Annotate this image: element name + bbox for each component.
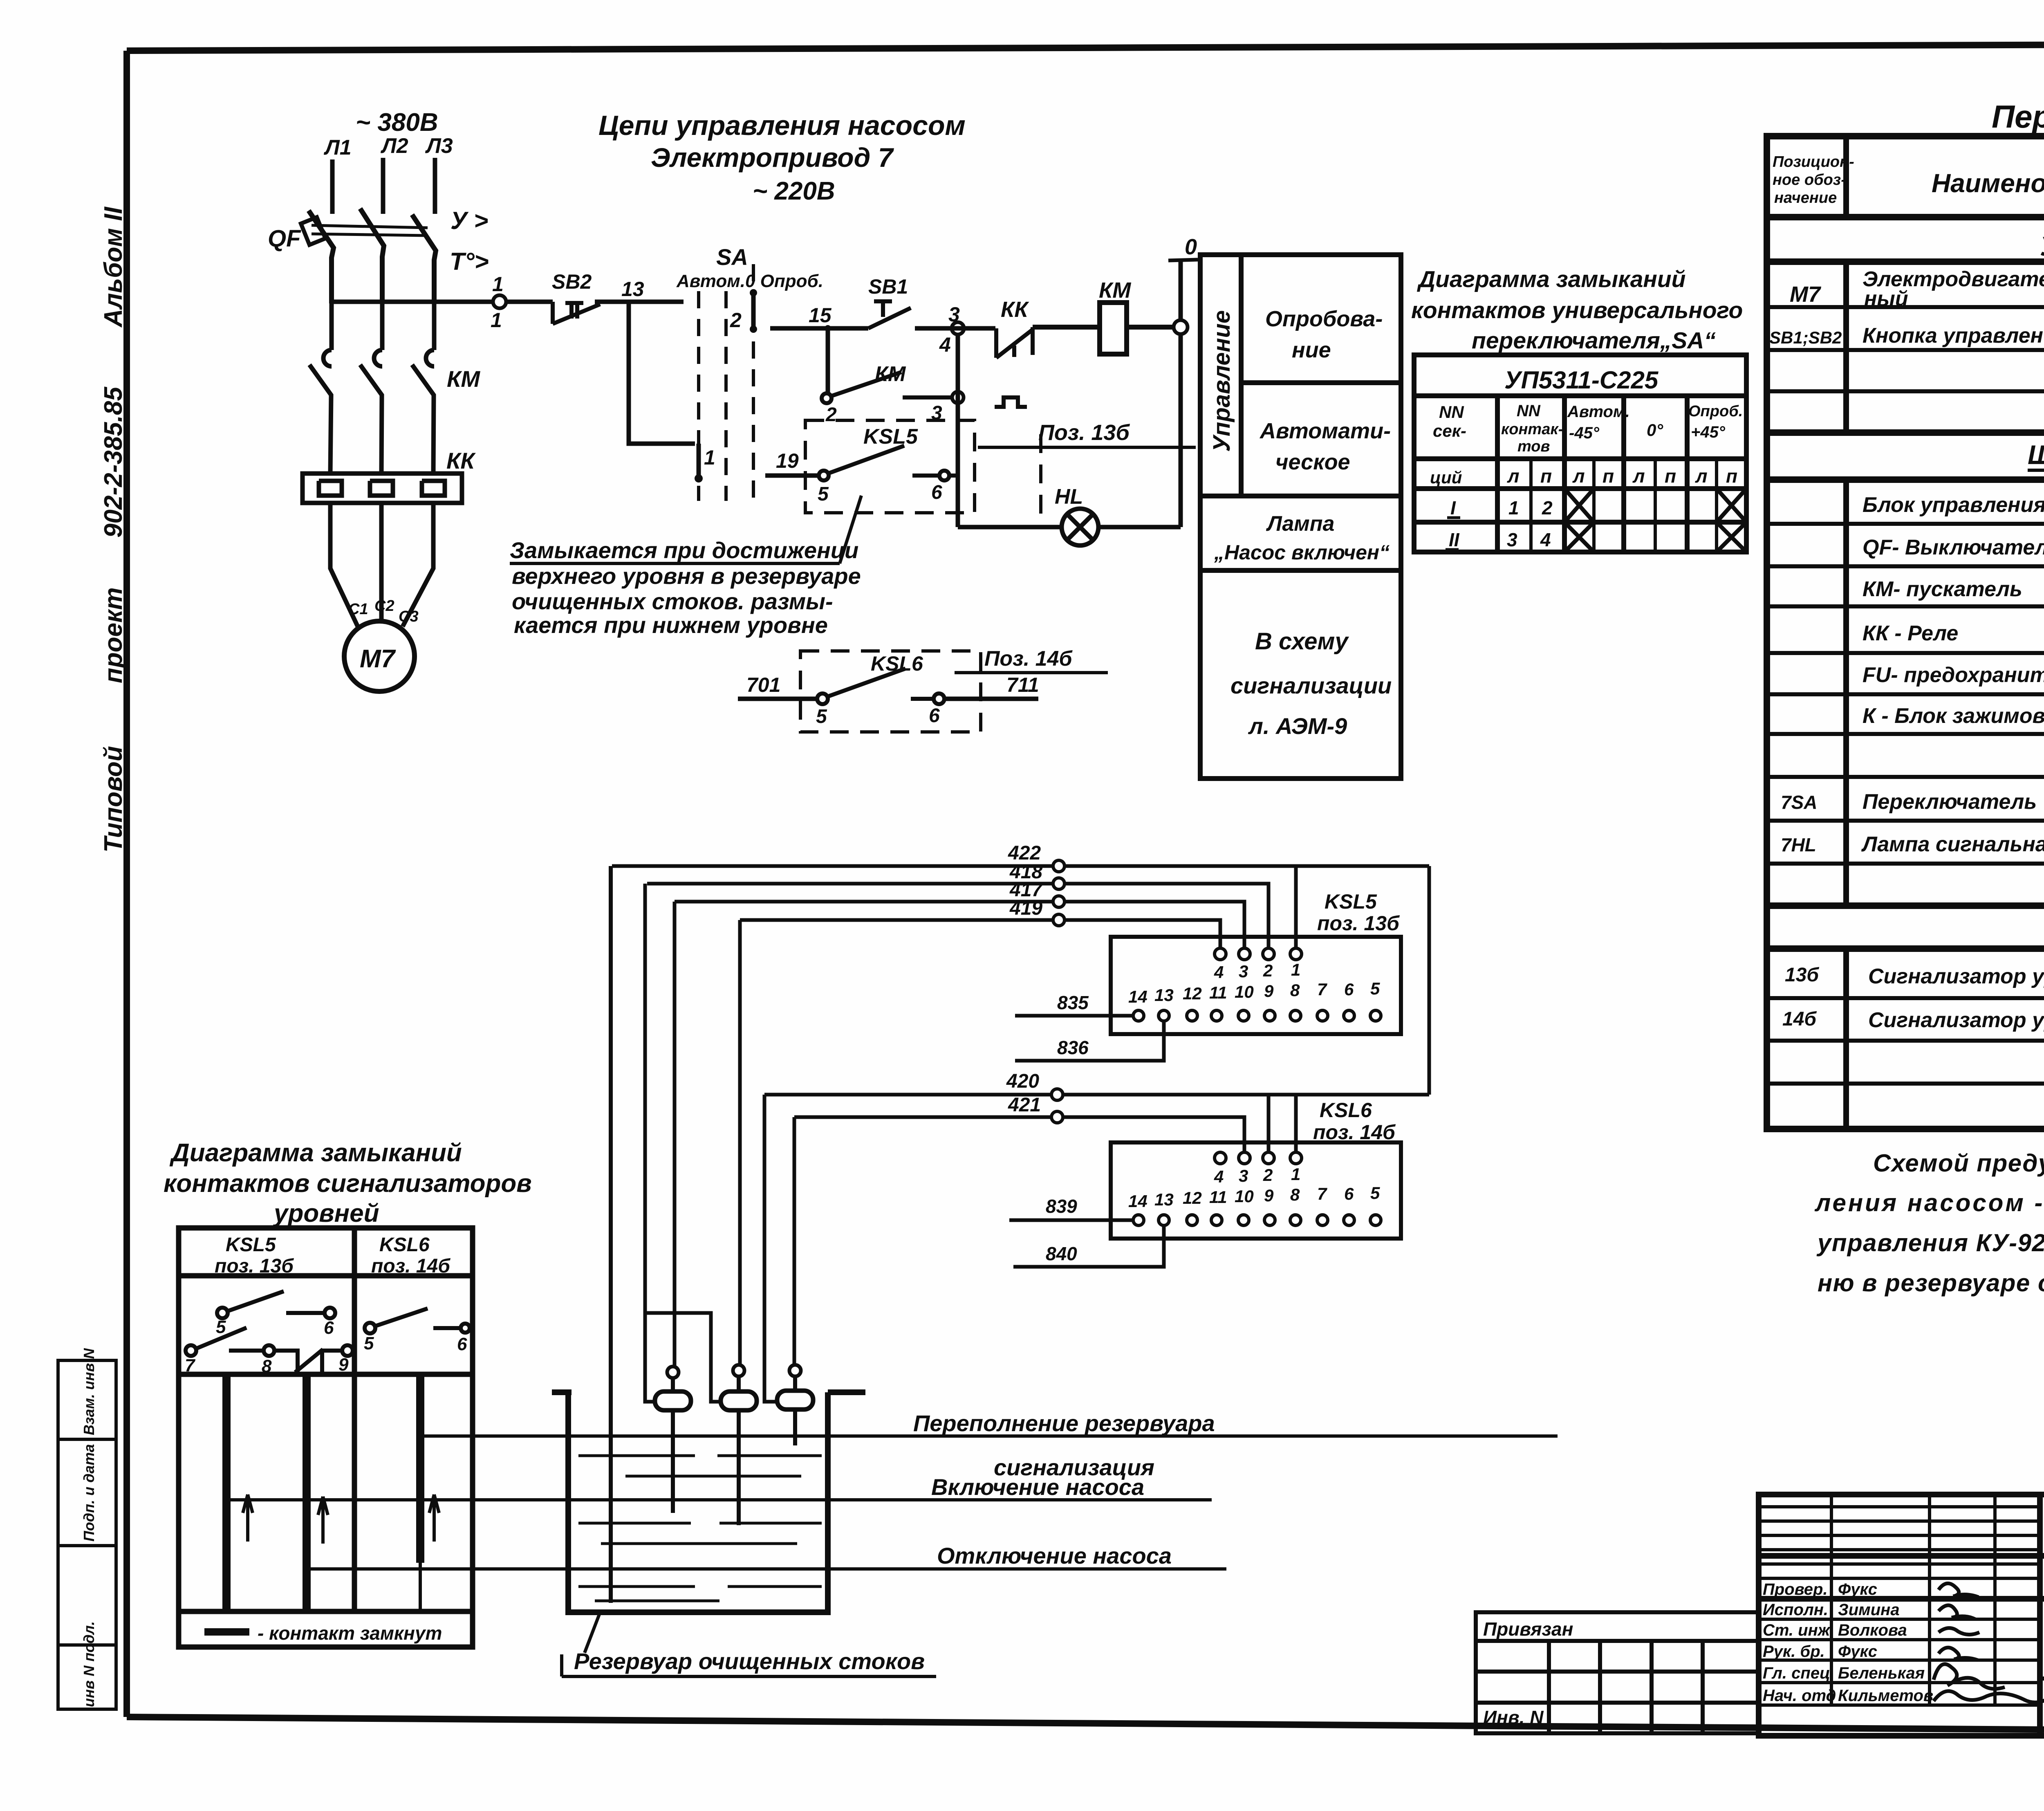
svg-text:Диаграмма замыканий: Диаграмма замыканий <box>169 1139 462 1167</box>
svg-text:11: 11 <box>1209 983 1227 1002</box>
svg-text:5: 5 <box>818 483 829 505</box>
wire KM coil to node 0 line <box>1127 325 1173 330</box>
svg-text:836: 836 <box>1057 1037 1089 1058</box>
breaker QF mechanical link crossbar <box>312 225 428 236</box>
contact KSL5 5-6 <box>217 1291 335 1318</box>
svg-text:ления насосом - опробование: ления насосом - опробование по месту кно… <box>1814 1189 2044 1216</box>
wire 19 stub to KSL5 contact <box>765 474 818 478</box>
svg-text:п: п <box>1665 465 1676 487</box>
dashed panel boundary <box>1039 434 1042 521</box>
svg-text:Альбом II: Альбом II <box>99 206 128 328</box>
strip: closed-state bar 3 <box>416 1374 424 1563</box>
wire 418 <box>647 884 1269 949</box>
svg-text:Л2: Л2 <box>380 134 408 158</box>
svg-text:KSL6: KSL6 <box>1320 1099 1372 1122</box>
svg-text:NN: NN <box>1517 402 1541 420</box>
svg-text:4: 4 <box>1214 963 1224 982</box>
leader Поз.13б <box>978 446 1196 449</box>
contactor KM pole 2 <box>360 350 382 474</box>
svg-text:2: 2 <box>730 309 742 332</box>
svg-text:очищенных стоков. размы-: очищенных стоков. размы- <box>512 588 833 614</box>
KSL5 bottom pins <box>1133 1010 1381 1021</box>
svg-text:Исполн.: Исполн. <box>1763 1601 1828 1619</box>
svg-text:13: 13 <box>1154 985 1174 1005</box>
svg-text:6: 6 <box>929 705 940 727</box>
svg-text:контактов универсального: контактов универсального <box>1411 297 1743 323</box>
svg-text:6: 6 <box>324 1318 334 1338</box>
svg-text:6: 6 <box>457 1334 467 1354</box>
leader to tank <box>585 1612 600 1653</box>
svg-text:Фукс: Фукс <box>1838 1643 1877 1661</box>
control-modes box <box>1200 255 1401 779</box>
svg-text:Отключение насоса: Отключение насоса <box>937 1543 1172 1569</box>
contact KSL6 5-6 <box>365 1308 470 1333</box>
svg-text:711: 711 <box>1006 673 1039 696</box>
node 1 circle <box>493 295 506 308</box>
level line overflow <box>420 1434 1558 1438</box>
relay contact KK (NC) <box>996 327 1033 358</box>
svg-text:SB1;SB2: SB1;SB2 <box>1769 328 1842 347</box>
X mark row I col Опроб-п <box>1717 489 1746 522</box>
svg-text:Кильметов: Кильметов <box>1838 1687 1933 1705</box>
parts table grid <box>1767 136 2044 1129</box>
svg-text:Привязан: Привязан <box>1483 1618 1573 1640</box>
wire 422 left drop into tank <box>609 866 613 1603</box>
svg-text:5: 5 <box>364 1333 374 1353</box>
svg-text:Наименование: Наименование <box>1932 168 2044 198</box>
svg-text:контак-: контак- <box>1501 421 1563 438</box>
breaker QF pole 3 blade <box>412 215 436 303</box>
X mark row I col Автом-л <box>1564 489 1594 522</box>
svg-text:Провер.: Провер. <box>1763 1580 1828 1598</box>
svg-text:Инв. N: Инв. N <box>1483 1707 1544 1728</box>
wire 835 <box>1015 1014 1133 1018</box>
svg-text:л: л <box>1695 465 1708 487</box>
wire 422 drop to KSL5 pin1 <box>1294 866 1298 949</box>
svg-text:9: 9 <box>1264 981 1274 1001</box>
svg-text:Рук. бр.: Рук. бр. <box>1763 1643 1825 1661</box>
svg-text:КК - Реле: КК - Реле <box>1862 622 1958 645</box>
svg-text:Позицион-: Позицион- <box>1773 153 1854 171</box>
svg-text:1: 1 <box>1508 497 1519 518</box>
svg-text:ций: ций <box>1430 468 1462 487</box>
svg-text:8: 8 <box>262 1356 272 1376</box>
SA contact table grid <box>1414 355 1746 552</box>
svg-text:~ 380В: ~ 380В <box>356 108 438 137</box>
svg-text:Схемой предусматривается дв: Схемой предусматривается два вида управ- <box>1873 1149 2044 1177</box>
svg-text:Опроб.: Опроб. <box>1688 403 1743 420</box>
legend: contact closed <box>204 1628 249 1636</box>
water hatching <box>578 1456 822 1601</box>
switch SA dashed column B <box>724 291 728 501</box>
svg-text:Подп. и дата: Подп. и дата <box>81 1444 97 1542</box>
svg-text:19: 19 <box>776 449 799 472</box>
svg-text:3: 3 <box>1239 1166 1248 1185</box>
svg-text:Л3: Л3 <box>425 134 453 158</box>
contact KM auxiliary (NO) <box>822 372 952 403</box>
rise arrow 3 <box>429 1495 439 1542</box>
svg-text:0°: 0° <box>1647 420 1663 440</box>
contactor KM pole 3 <box>412 350 434 474</box>
svg-text:Электропривод 7: Электропривод 7 <box>651 142 894 173</box>
svg-text:п: п <box>1726 465 1737 487</box>
wire 417 <box>675 902 1244 949</box>
svg-text:Беленькая: Беленькая <box>1838 1664 1925 1682</box>
underline of note first line <box>510 562 840 565</box>
svg-text:14: 14 <box>1128 987 1148 1006</box>
svg-text:л. АЭМ-9: л. АЭМ-9 <box>1248 713 1347 739</box>
breaker QF pole 1 blade <box>309 211 334 303</box>
title block outer <box>1759 1495 2044 1736</box>
svg-text:тов: тов <box>1517 438 1550 455</box>
svg-text:С3: С3 <box>399 608 419 625</box>
svg-text:14б: 14б <box>1782 1008 1817 1030</box>
svg-text:ное обоз-: ное обоз- <box>1773 171 1846 189</box>
svg-text:Типовой: Типовой <box>99 746 128 853</box>
wire phase L1 drop <box>330 159 335 214</box>
junction at 15 <box>825 325 831 332</box>
svg-text:Кнопка управления: Кнопка управления <box>1862 324 2044 348</box>
wire KK to motor C1 <box>330 503 358 626</box>
svg-text:КМ: КМ <box>447 366 480 392</box>
KSL5 top pins <box>1215 948 1302 960</box>
svg-text:Лампа сигнальная: Лампа сигнальная <box>1861 833 2044 856</box>
signature squiggles <box>1934 1583 2044 1702</box>
svg-text:Диаграмма замыканий: Диаграмма замыканий <box>1416 266 1685 292</box>
svg-text:2: 2 <box>1263 1165 1273 1185</box>
switch SA contact 1 bar <box>697 444 701 480</box>
svg-text:3: 3 <box>1239 962 1248 981</box>
X mark row II col Автом-л <box>1564 522 1594 552</box>
svg-text:12: 12 <box>1183 1188 1202 1207</box>
svg-text:ние: ние <box>1292 338 1331 362</box>
svg-text:HL: HL <box>1055 485 1083 509</box>
svg-text:QF: QF <box>268 225 301 252</box>
levels diagram title <box>164 1139 532 1228</box>
svg-text:С1: С1 <box>348 601 368 618</box>
X mark row II col Опроб-п <box>1717 522 1746 552</box>
svg-text:Переполнение резервуара: Переполнение резервуара <box>913 1410 1215 1436</box>
wire 422 right loop <box>1428 866 1431 1095</box>
svg-text:SA: SA <box>716 244 748 270</box>
svg-text:0: 0 <box>1185 235 1197 259</box>
svg-text:~ 220В: ~ 220В <box>753 177 835 205</box>
svg-text:Т°>: Т°> <box>450 248 489 275</box>
svg-text:2: 2 <box>1542 497 1553 518</box>
svg-text:управления КУ-92-ВЗГ-У2 и а: управления КУ-92-ВЗГ-У2 и автоматическое… <box>1816 1229 2044 1257</box>
branch 15 down to KM aux <box>826 328 830 393</box>
wire KK to motor C2 <box>379 503 384 621</box>
svg-text:10: 10 <box>1235 1187 1254 1206</box>
leader from note to KSL5 box <box>840 496 861 563</box>
svg-text:сигнализации: сигнализации <box>1230 673 1392 698</box>
svg-text:419: 419 <box>1009 898 1042 919</box>
wire 420 drops <box>1269 1095 1296 1153</box>
svg-text:УП5311-С225: УП5311-С225 <box>1504 366 1659 394</box>
svg-text:12: 12 <box>1183 984 1202 1003</box>
svg-text:Цепи управления насосом: Цепи управления насосом <box>598 110 966 141</box>
float switch 3 <box>789 1365 801 1376</box>
svg-text:6: 6 <box>1344 1184 1354 1203</box>
svg-text:Поз. 13б: Поз. 13б <box>1038 420 1130 445</box>
header texts <box>1773 153 1854 206</box>
svg-text:SB2: SB2 <box>552 270 592 293</box>
svg-text:начение: начение <box>1774 189 1837 206</box>
note paragraph <box>1814 1149 2044 1297</box>
contact KSL6 <box>817 669 944 704</box>
KK thermal element symbol <box>995 397 1027 407</box>
svg-text:поз. 13б: поз. 13б <box>1317 912 1400 935</box>
svg-text:У >: У > <box>450 207 488 234</box>
svg-text:поз. 13б: поз. 13б <box>215 1255 294 1277</box>
svg-text:Блок управления: Блок управления <box>1862 493 2044 517</box>
wire L1 to KM <box>329 303 334 350</box>
svg-text:8: 8 <box>1290 981 1300 1000</box>
svg-text:п: п <box>1540 465 1552 487</box>
svg-text:Взам. инв N: Взам. инв N <box>81 1348 97 1435</box>
svg-text:Лампа: Лампа <box>1266 512 1334 536</box>
svg-text:I: I <box>1450 497 1456 518</box>
svg-text:KSL5: KSL5 <box>226 1234 276 1256</box>
svg-text:13: 13 <box>621 278 644 301</box>
svg-text:Волкова: Волкова <box>1838 1621 1907 1639</box>
svg-text:КМ- пускатель: КМ- пускатель <box>1862 577 2022 601</box>
svg-text:4: 4 <box>1214 1167 1224 1186</box>
svg-text:421: 421 <box>1008 1094 1041 1116</box>
svg-text:Нач. отд: Нач. отд <box>1763 1687 1836 1705</box>
wire 419 left drop to float2 rod <box>738 920 742 1365</box>
svg-text:6: 6 <box>931 482 942 503</box>
coil KM rectangle <box>1100 303 1127 354</box>
junction on 0-line <box>1174 320 1188 334</box>
svg-text:2: 2 <box>1263 961 1273 980</box>
switch SA dashed column C <box>752 264 755 501</box>
svg-text:сек-: сек- <box>1433 421 1466 440</box>
svg-text:2: 2 <box>825 404 837 426</box>
svg-text:М7: М7 <box>360 645 396 673</box>
left margin vertical text: Типовой проект 902-2-385.85 <box>99 206 128 853</box>
levels diagram box <box>179 1228 473 1647</box>
svg-text:KSL5: KSL5 <box>863 425 918 449</box>
SA diagram title <box>1411 266 1743 354</box>
svg-text:5: 5 <box>816 706 827 727</box>
svg-text:9: 9 <box>338 1355 349 1375</box>
junction node 3/4 <box>952 322 964 334</box>
wire 0 vertical <box>1179 260 1183 527</box>
svg-text:7: 7 <box>1317 1184 1327 1203</box>
svg-text:п: п <box>1602 465 1614 487</box>
svg-text:6: 6 <box>1344 980 1354 999</box>
svg-text:Гл. спец: Гл. спец <box>1763 1664 1830 1682</box>
svg-text:QF- Выключатель: QF- Выключатель <box>1862 536 2044 559</box>
svg-text:Управление: Управление <box>1208 310 1235 452</box>
svg-text:5: 5 <box>216 1317 226 1337</box>
signatures column labels <box>1763 1580 1933 1705</box>
svg-text:верхнего уровня в резервуаре: верхнего уровня в резервуаре <box>512 563 861 589</box>
svg-text:Л1: Л1 <box>323 136 352 159</box>
rise arrow 1 <box>243 1495 253 1542</box>
svg-text:Сигнализатор уровня: Сигнализатор уровня <box>1868 965 2044 988</box>
button SB2 (NC) <box>553 302 600 324</box>
wire 839 <box>1009 1219 1133 1222</box>
svg-text:1: 1 <box>1291 1165 1300 1184</box>
vertical bus 3-4 down to HL rung <box>956 334 960 527</box>
svg-text:КК: КК <box>1001 297 1029 322</box>
breaker QF handle <box>301 217 325 245</box>
left extension box Привязан <box>1476 1612 1759 1733</box>
svg-text:13б: 13б <box>1785 964 1819 986</box>
svg-text:ный: ный <box>1864 287 1908 311</box>
svg-text:КМ: КМ <box>875 362 906 386</box>
svg-text:Автом.: Автом. <box>1567 403 1630 421</box>
svg-text:проект: проект <box>99 587 128 683</box>
svg-text:KSL5: KSL5 <box>1325 890 1377 913</box>
note text: Замыкается при достижении <box>510 537 861 638</box>
svg-text:3: 3 <box>1507 529 1517 550</box>
wire KK to motor C3 <box>403 503 433 626</box>
leader Поз.14б <box>955 671 1108 674</box>
wire SB1 to node 3 <box>915 326 995 331</box>
junction dot KM aux <box>952 392 964 403</box>
terminal 0 tick <box>1168 260 1198 260</box>
reservoir walls <box>552 1392 865 1612</box>
svg-text:Зимина: Зимина <box>1838 1601 1900 1619</box>
contact KSL5 <box>819 446 958 480</box>
wire SB2 to node 13 <box>595 300 684 304</box>
wire 418 branch to float2 <box>645 1313 721 1402</box>
wire L2 to KM <box>380 303 385 350</box>
wire 422 <box>612 864 1429 868</box>
wire tap from phases to node 1 <box>332 300 493 304</box>
svg-text:4: 4 <box>939 333 951 356</box>
level line pump off <box>307 1567 1226 1571</box>
svg-text:4: 4 <box>1540 529 1551 550</box>
svg-text:+45°: +45° <box>1691 423 1726 441</box>
svg-text:1: 1 <box>491 309 502 332</box>
thermal relay KK heater block <box>303 474 462 503</box>
svg-text:„Насос включен“: „Насос включен“ <box>1214 541 1390 564</box>
svg-text:В схему: В схему <box>1255 628 1349 655</box>
dashed box KSL6 (schematic contact) <box>800 651 981 732</box>
float switch 2 <box>733 1365 744 1376</box>
wire 711 <box>945 697 1038 701</box>
wire main rung from SA to SB1 <box>770 326 868 331</box>
svg-text:Сигнализатор уровня: Сигнализатор уровня <box>1868 1008 2044 1032</box>
float switch 1 <box>667 1367 679 1378</box>
svg-text:Замыкается при достижении: Замыкается при достижении <box>510 537 858 563</box>
col header NN секций <box>1430 402 1743 550</box>
motor M7 circle <box>344 621 415 691</box>
svg-text:1: 1 <box>492 273 504 296</box>
contactor KM pole 1 <box>309 350 332 474</box>
svg-text:14: 14 <box>1128 1192 1148 1211</box>
wire L3 to KM <box>432 303 437 350</box>
lamp HL symbol <box>1062 509 1098 545</box>
svg-text:М7: М7 <box>1790 282 1822 307</box>
KSL6 bottom pins <box>1133 1215 1381 1225</box>
svg-text:839: 839 <box>1046 1196 1077 1217</box>
strip: closed-state bar 1 <box>222 1374 231 1611</box>
svg-text:л: л <box>1572 465 1585 487</box>
rise arrow 2 <box>318 1497 328 1544</box>
lamp HL rung <box>958 525 1181 530</box>
wire 13 down-branch to SA contact 1 <box>629 302 695 444</box>
svg-text:С2: С2 <box>374 597 394 615</box>
svg-text:Резервуар очищенных стоков: Резервуар очищенных стоков <box>574 1648 925 1674</box>
svg-text:701: 701 <box>746 673 780 696</box>
level line pump on <box>226 1498 1212 1501</box>
svg-text:кается при нижнем уровне: кается при нижнем уровне <box>514 612 828 638</box>
svg-text:1: 1 <box>704 446 715 469</box>
wire phase L3 drop <box>433 158 437 214</box>
terminal box KSL5 <box>1111 937 1401 1034</box>
svg-text:ню в резервуаре очищенных: ню в резервуаре очищенных стоков. <box>1818 1269 2044 1297</box>
svg-text:Включение насоса: Включение насоса <box>931 1474 1144 1500</box>
svg-text:переключателя„SA“: переключателя„SA“ <box>1472 328 1716 354</box>
strip: closed-state bar 2 <box>303 1374 311 1611</box>
wire node1 to SB2 <box>506 300 553 304</box>
button SB1 (NO) <box>868 301 911 328</box>
svg-text:10: 10 <box>1235 982 1254 1001</box>
svg-text:840: 840 <box>1046 1243 1077 1264</box>
svg-text:13: 13 <box>1154 1190 1174 1209</box>
terminal box KSL6 <box>1111 1142 1401 1239</box>
svg-text:К - Блок зажимов: К - Блок зажимов <box>1862 704 2044 728</box>
svg-text:11: 11 <box>1209 1187 1227 1207</box>
dashed box KSL5 (schematic contact) <box>805 420 975 513</box>
svg-text:л: л <box>1507 465 1520 487</box>
svg-text:- контакт замкнут: - контакт замкнут <box>258 1622 442 1644</box>
wire 836 <box>1015 1021 1164 1061</box>
svg-text:Ст. инж.: Ст. инж. <box>1763 1621 1834 1639</box>
svg-text:поз. 14б: поз. 14б <box>1313 1121 1396 1144</box>
svg-text:420: 420 <box>1006 1070 1039 1092</box>
svg-text:Фукс: Фукс <box>1838 1580 1877 1598</box>
wire 421 <box>794 1117 1244 1153</box>
wire 418 left drop to float1 <box>645 884 655 1402</box>
svg-text:уровней: уровней <box>273 1199 379 1228</box>
svg-text:Автомати-: Автомати- <box>1259 419 1391 443</box>
wire 840 <box>1013 1225 1164 1267</box>
wire 420 left drop to float3 <box>764 1095 775 1402</box>
svg-text:5: 5 <box>1370 979 1380 998</box>
svg-text:КМ: КМ <box>1099 278 1131 303</box>
svg-text:7SA: 7SA <box>1781 792 1817 813</box>
svg-text:Опробова-: Опробова- <box>1265 307 1383 331</box>
breaker QF pole 2 blade <box>360 209 384 303</box>
svg-text:поз. 14б: поз. 14б <box>371 1255 450 1277</box>
KSL6 top pins <box>1215 1152 1302 1164</box>
svg-text:инв N подл.: инв N подл. <box>81 1621 97 1707</box>
wire phase L2 drop <box>381 158 385 214</box>
wire 420 <box>764 1093 1429 1097</box>
wire 417 left drop to float1 rod <box>673 902 677 1367</box>
wire KK to KM coil <box>1033 325 1100 330</box>
svg-text:Поз. 14б: Поз. 14б <box>984 647 1073 671</box>
svg-text:7: 7 <box>1317 980 1327 999</box>
svg-text:8: 8 <box>1290 1185 1300 1204</box>
svg-text:1: 1 <box>1291 960 1300 979</box>
svg-text:SB1: SB1 <box>868 275 908 298</box>
svg-text:ческое: ческое <box>1275 450 1350 474</box>
svg-text:л: л <box>1632 465 1645 487</box>
title block small top rows <box>1759 1495 2040 1705</box>
svg-text:7: 7 <box>185 1355 196 1376</box>
svg-text:Переключатель: Переключатель <box>1862 790 2037 814</box>
svg-text:7HL: 7HL <box>1781 834 1816 855</box>
svg-text:КК: КК <box>446 448 476 474</box>
svg-text:KSL6: KSL6 <box>379 1234 430 1256</box>
